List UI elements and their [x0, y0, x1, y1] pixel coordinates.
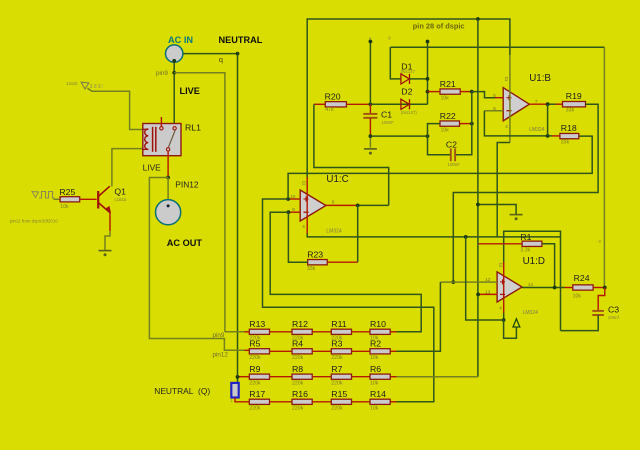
relay RL1 coil stubs [143, 128, 149, 130]
wire: relay coil bottom to Q1 collector [112, 149, 143, 187]
svg-text:10k: 10k [573, 294, 582, 300]
wire: top rail to D branch [390, 46, 604, 48]
svg-text:NEUTRAL: NEUTRAL [219, 35, 263, 45]
resistor R6 [370, 374, 390, 379]
resistor R23 [308, 260, 328, 265]
svg-text:100nF: 100nF [448, 162, 461, 167]
wire: R18 long feedback to U1:C +input [288, 136, 592, 199]
wire: row1 left stub [225, 331, 245, 333]
wire: C1 node to R22/C2 vertical [370, 135, 427, 137]
wire: diode vertical x427 [427, 42, 429, 105]
svg-text:q: q [219, 55, 223, 64]
svg-text:R8: R8 [292, 364, 303, 374]
resistor R22 [440, 121, 460, 126]
svg-text:4: 4 [505, 124, 508, 129]
resistor R13 [249, 329, 269, 334]
wire segment to R12 [270, 331, 293, 333]
wire segment to R8 [270, 376, 293, 378]
wire: R24 right [593, 287, 605, 289]
resistor R11 [331, 329, 351, 334]
svg-text:220k: 220k [292, 355, 304, 361]
resistor R7 [331, 374, 351, 379]
wire: AC IN to neutral node q [183, 53, 238, 55]
wire: live rail from pin9 down to R13 row [174, 73, 225, 332]
wire: D1 branch [390, 47, 401, 79]
wire: pin9 down to relay switch pin [173, 73, 175, 127]
terminal NEUTRAL Q (battery) [231, 383, 238, 398]
relay NC pin stub [160, 117, 162, 127]
node under relay [166, 176, 170, 180]
svg-text:R25: R25 [59, 187, 75, 197]
svg-text:AC IN: AC IN [168, 35, 193, 45]
wire: relay common down to node [167, 151, 169, 177]
svg-text:220k: 220k [249, 355, 261, 361]
wire: row3 left stub [238, 376, 250, 378]
svg-text:IN4147: IN4147 [401, 69, 416, 74]
relay blade [168, 130, 175, 148]
diode D2 1N4148 [401, 99, 409, 109]
U1:D power line through body [503, 262, 505, 313]
wire: row1 right loop to U1:C -input [390, 331, 396, 333]
wire: output down to R23 [357, 205, 359, 262]
resistor R10 [370, 329, 390, 334]
wire: D1 cathode to vertical [410, 78, 428, 80]
svg-text:AC OUT: AC OUT [167, 238, 203, 248]
svg-text:220k: 220k [249, 380, 261, 386]
svg-text:D2: D2 [401, 86, 412, 96]
wire: R22 left branch down to C2 [428, 124, 451, 155]
svg-text:pin9: pin9 [213, 332, 225, 339]
resistor R24 [573, 285, 593, 290]
svg-text:LM324: LM324 [326, 229, 342, 235]
wire: terminal bottom to row4 [235, 398, 249, 402]
svg-text:R17: R17 [249, 389, 265, 399]
relay RL1 contacts [160, 127, 163, 130]
svg-text:pin 28 of dspic: pin 28 of dspic [413, 22, 465, 31]
svg-text:R19: R19 [566, 91, 582, 101]
node pin9 [172, 71, 176, 75]
AC OUT pin mark [167, 204, 170, 207]
net stub a [369, 42, 371, 105]
svg-text:R9: R9 [249, 364, 260, 374]
svg-text:PIN12: PIN12 [175, 179, 199, 189]
wire: R25 to Q1 base [80, 198, 97, 200]
wire segment to R10 [352, 331, 371, 333]
svg-text:pin9: pin9 [156, 70, 168, 77]
wire: R20 right to C1 node [346, 103, 370, 105]
svg-text:33k: 33k [561, 140, 570, 146]
resistor R18 [560, 133, 579, 138]
wire: pulse to R25 [54, 198, 61, 200]
wire: pin4 to power vertical [466, 237, 504, 320]
svg-text:7: 7 [535, 99, 538, 104]
resistor R19 [563, 102, 586, 107]
wire segment to R15 [312, 401, 331, 403]
svg-text:pin12: pin12 [213, 351, 229, 358]
resistor R21 [440, 89, 460, 94]
resistor R20 [325, 102, 346, 107]
svg-text:11: 11 [498, 263, 503, 268]
wire: Q1 emitter to ground [109, 213, 111, 232]
ground near Q1 [99, 250, 112, 252]
svg-text:R24: R24 [574, 273, 590, 283]
svg-text:10k: 10k [60, 204, 69, 210]
svg-text:12: 12 [485, 277, 491, 282]
wire: V+ top rail pin28 [307, 19, 510, 177]
svg-text:R4: R4 [292, 339, 303, 349]
capacitor C1 [369, 104, 371, 113]
node q [236, 52, 240, 56]
svg-text:U1:C: U1:C [326, 174, 348, 185]
wire: 12vdc supply lead to relay coil top [88, 88, 143, 129]
resistor R16 [292, 399, 312, 404]
svg-text:LM324: LM324 [529, 127, 545, 133]
node on top rail [476, 17, 480, 21]
svg-text:10k: 10k [370, 405, 379, 411]
svg-text:11: 11 [301, 181, 306, 186]
resistor R3 [331, 349, 351, 354]
op-amp U1:B [503, 88, 529, 121]
wire segment to R7 [312, 376, 331, 378]
terminal AC IN [166, 45, 183, 62]
node row3 left [236, 375, 240, 379]
wire: row2 right to U1:D +input [390, 350, 396, 352]
resistor R12 [292, 329, 312, 334]
svg-text:11: 11 [504, 77, 509, 82]
svg-text:R12: R12 [292, 319, 308, 329]
op-amp U1:C [300, 190, 326, 221]
wire segment to R4 [270, 350, 293, 352]
wire: neutral q vertical down to terminal [237, 54, 239, 383]
svg-text:4: 4 [302, 224, 305, 229]
svg-text:R16: R16 [292, 389, 308, 399]
wire: AC IN bottom to pin9 node [173, 61, 175, 73]
svg-text:10k: 10k [370, 355, 379, 361]
svg-text:33k: 33k [307, 266, 316, 272]
svg-text:(N4147): (N4147) [401, 110, 417, 115]
wire: R21 left [428, 91, 441, 93]
svg-text:4: 4 [499, 305, 502, 310]
svg-text:Q1: Q1 [114, 186, 126, 196]
svg-text:R6: R6 [370, 364, 381, 374]
svg-text:14: 14 [528, 282, 534, 287]
ground mid [510, 214, 523, 216]
power arrow symbol [504, 320, 517, 338]
svg-text:R11: R11 [331, 319, 346, 329]
relay RL1 core [152, 127, 154, 152]
svg-text:220k: 220k [331, 405, 343, 411]
svg-text:100nf: 100nf [608, 315, 620, 320]
svg-text:pin11 from dspic30f2010: pin11 from dspic30f2010 [10, 219, 58, 224]
pulse input symbol [32, 192, 39, 198]
svg-text:U1:D: U1:D [523, 256, 545, 267]
wire segment to R6 [352, 376, 371, 378]
resistor R2 [370, 349, 390, 354]
svg-text:c1815: c1815 [114, 197, 127, 202]
svg-text:R20: R20 [325, 91, 341, 101]
svg-text:R1: R1 [520, 232, 531, 242]
wire: R21 right [460, 91, 472, 93]
resistor R9 [249, 374, 269, 379]
resistor R5 [249, 349, 269, 354]
wire segment to R14 [352, 401, 371, 403]
svg-text:R7: R7 [331, 364, 342, 374]
wire: ground tap [478, 205, 516, 215]
ground under C1 [364, 148, 377, 150]
wire: U1:C pin4 power rail [307, 234, 560, 237]
svg-text:R21: R21 [440, 79, 456, 89]
wire: R23 right [327, 261, 358, 263]
svg-text:LM324: LM324 [523, 310, 539, 316]
U1:C input wires [288, 198, 300, 200]
svg-text:U1:B: U1:B [529, 73, 551, 84]
resistor R1 and loop [478, 243, 522, 245]
svg-text:C1: C1 [381, 110, 392, 120]
wire: node to pin12 row (R5) [149, 178, 244, 351]
svg-text:C3: C3 [608, 304, 619, 314]
resistor R1 [522, 241, 542, 246]
transistor Q1 c1815 [98, 186, 110, 213]
svg-text:LIVE: LIVE [143, 163, 162, 173]
wire: R19 right to U1:D +input [453, 104, 598, 282]
svg-text:R22: R22 [440, 111, 456, 121]
svg-text:33k: 33k [566, 108, 575, 114]
wire: long vertical x478 from top rail to R6 row [477, 19, 479, 377]
svg-text:220k: 220k [292, 380, 304, 386]
resistor R14 [370, 399, 390, 404]
wire: U1:D -input stub [478, 293, 497, 295]
wire segment to R2 [352, 350, 371, 352]
capacitor C2 [450, 148, 452, 161]
U1:C output wire [326, 204, 358, 206]
svg-text:R18: R18 [561, 123, 577, 133]
relay RL1 coil [145, 129, 149, 149]
relay RL1 body [143, 124, 181, 156]
U1:B pin4 wire [497, 143, 510, 237]
node under C1 [369, 134, 373, 138]
U1:C power line through body [306, 177, 308, 234]
svg-text:10k: 10k [441, 127, 450, 133]
svg-text:C2: C2 [446, 139, 457, 149]
wire segment to R3 [312, 350, 331, 352]
svg-text:220k: 220k [331, 355, 343, 361]
wire: U1:B output [529, 103, 547, 105]
svg-text:R3: R3 [331, 339, 342, 349]
svg-text:NEUTRAL (Q): NEUTRAL (Q) [154, 386, 210, 396]
svg-text:12vdc: 12vdc [66, 81, 79, 86]
svg-text:8: 8 [332, 200, 335, 205]
svg-text:220k: 220k [331, 380, 343, 386]
terminal AC OUT [156, 200, 181, 225]
wire: R23 left to -input [288, 212, 307, 262]
svg-text:R15: R15 [331, 389, 347, 399]
svg-text:220k: 220k [292, 405, 304, 411]
wire: U1:D output to R24 [522, 287, 564, 289]
resistor R25 [60, 197, 80, 202]
wire: R1 right to output [542, 244, 555, 288]
wire segment to R16 [270, 401, 293, 403]
wire: U1:B +input [472, 92, 495, 98]
svg-text:3.3k: 3.3k [520, 248, 530, 254]
node at C1 top [369, 102, 373, 106]
resistor R4 [292, 349, 312, 354]
wire: R22/C2 right vertical [456, 92, 472, 155]
wire: output junction down to R18 [547, 104, 549, 136]
wire: row4 right loop to U1:C +input [390, 401, 396, 403]
svg-text:10k: 10k [370, 380, 379, 386]
svg-text:100nF: 100nF [382, 120, 395, 125]
svg-text:R23: R23 [307, 250, 323, 260]
wire: R20 feedback loop [314, 103, 325, 105]
wire: U1:B -input to R18 [484, 110, 503, 112]
op-amp U1:D [497, 272, 522, 302]
wire: D2 line from C1 node to diode vertical [370, 103, 427, 105]
capacitor C3 [598, 288, 605, 311]
wire: power loop to U1:D pin11 [504, 231, 561, 330]
node on AC IN [172, 59, 176, 63]
wire: row3 right to x478 vertical [390, 376, 396, 378]
svg-text:R10: R10 [370, 319, 386, 329]
svg-text:R5: R5 [249, 339, 260, 349]
svg-text:LIVE: LIVE [180, 86, 200, 96]
svg-text:R2: R2 [370, 339, 381, 349]
svg-text:R14: R14 [370, 389, 386, 399]
svg-text:220k: 220k [249, 405, 261, 411]
wire: node to AC OUT terminal [167, 178, 169, 200]
wire: R22 right [460, 123, 472, 125]
svg-text:47k: 47k [325, 107, 334, 113]
U1:B power line through body [509, 55, 511, 143]
wire segment to R11 [312, 331, 331, 333]
resistor R15 [331, 399, 351, 404]
svg-text:R13: R13 [249, 319, 265, 329]
resistor R17 [249, 399, 269, 404]
resistor R8 [292, 374, 312, 379]
power flag 12vdc [81, 82, 89, 89]
svg-text:RL1: RL1 [185, 122, 201, 132]
wire: U1:D +input [440, 281, 497, 283]
svg-text:10k: 10k [441, 95, 450, 101]
diode D1 1N4148 [401, 74, 409, 84]
svg-text:9: 9 [292, 207, 295, 212]
